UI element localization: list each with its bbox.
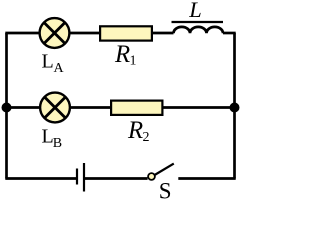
svg-text:R: R	[114, 41, 130, 68]
svg-text:B: B	[53, 136, 62, 151]
svg-text:R: R	[127, 117, 143, 144]
svg-text:L: L	[188, 0, 202, 22]
svg-text:2: 2	[143, 130, 150, 145]
svg-text:S: S	[159, 178, 172, 201]
svg-text:1: 1	[130, 54, 137, 69]
svg-text:A: A	[54, 61, 65, 76]
svg-text:L: L	[42, 51, 54, 73]
